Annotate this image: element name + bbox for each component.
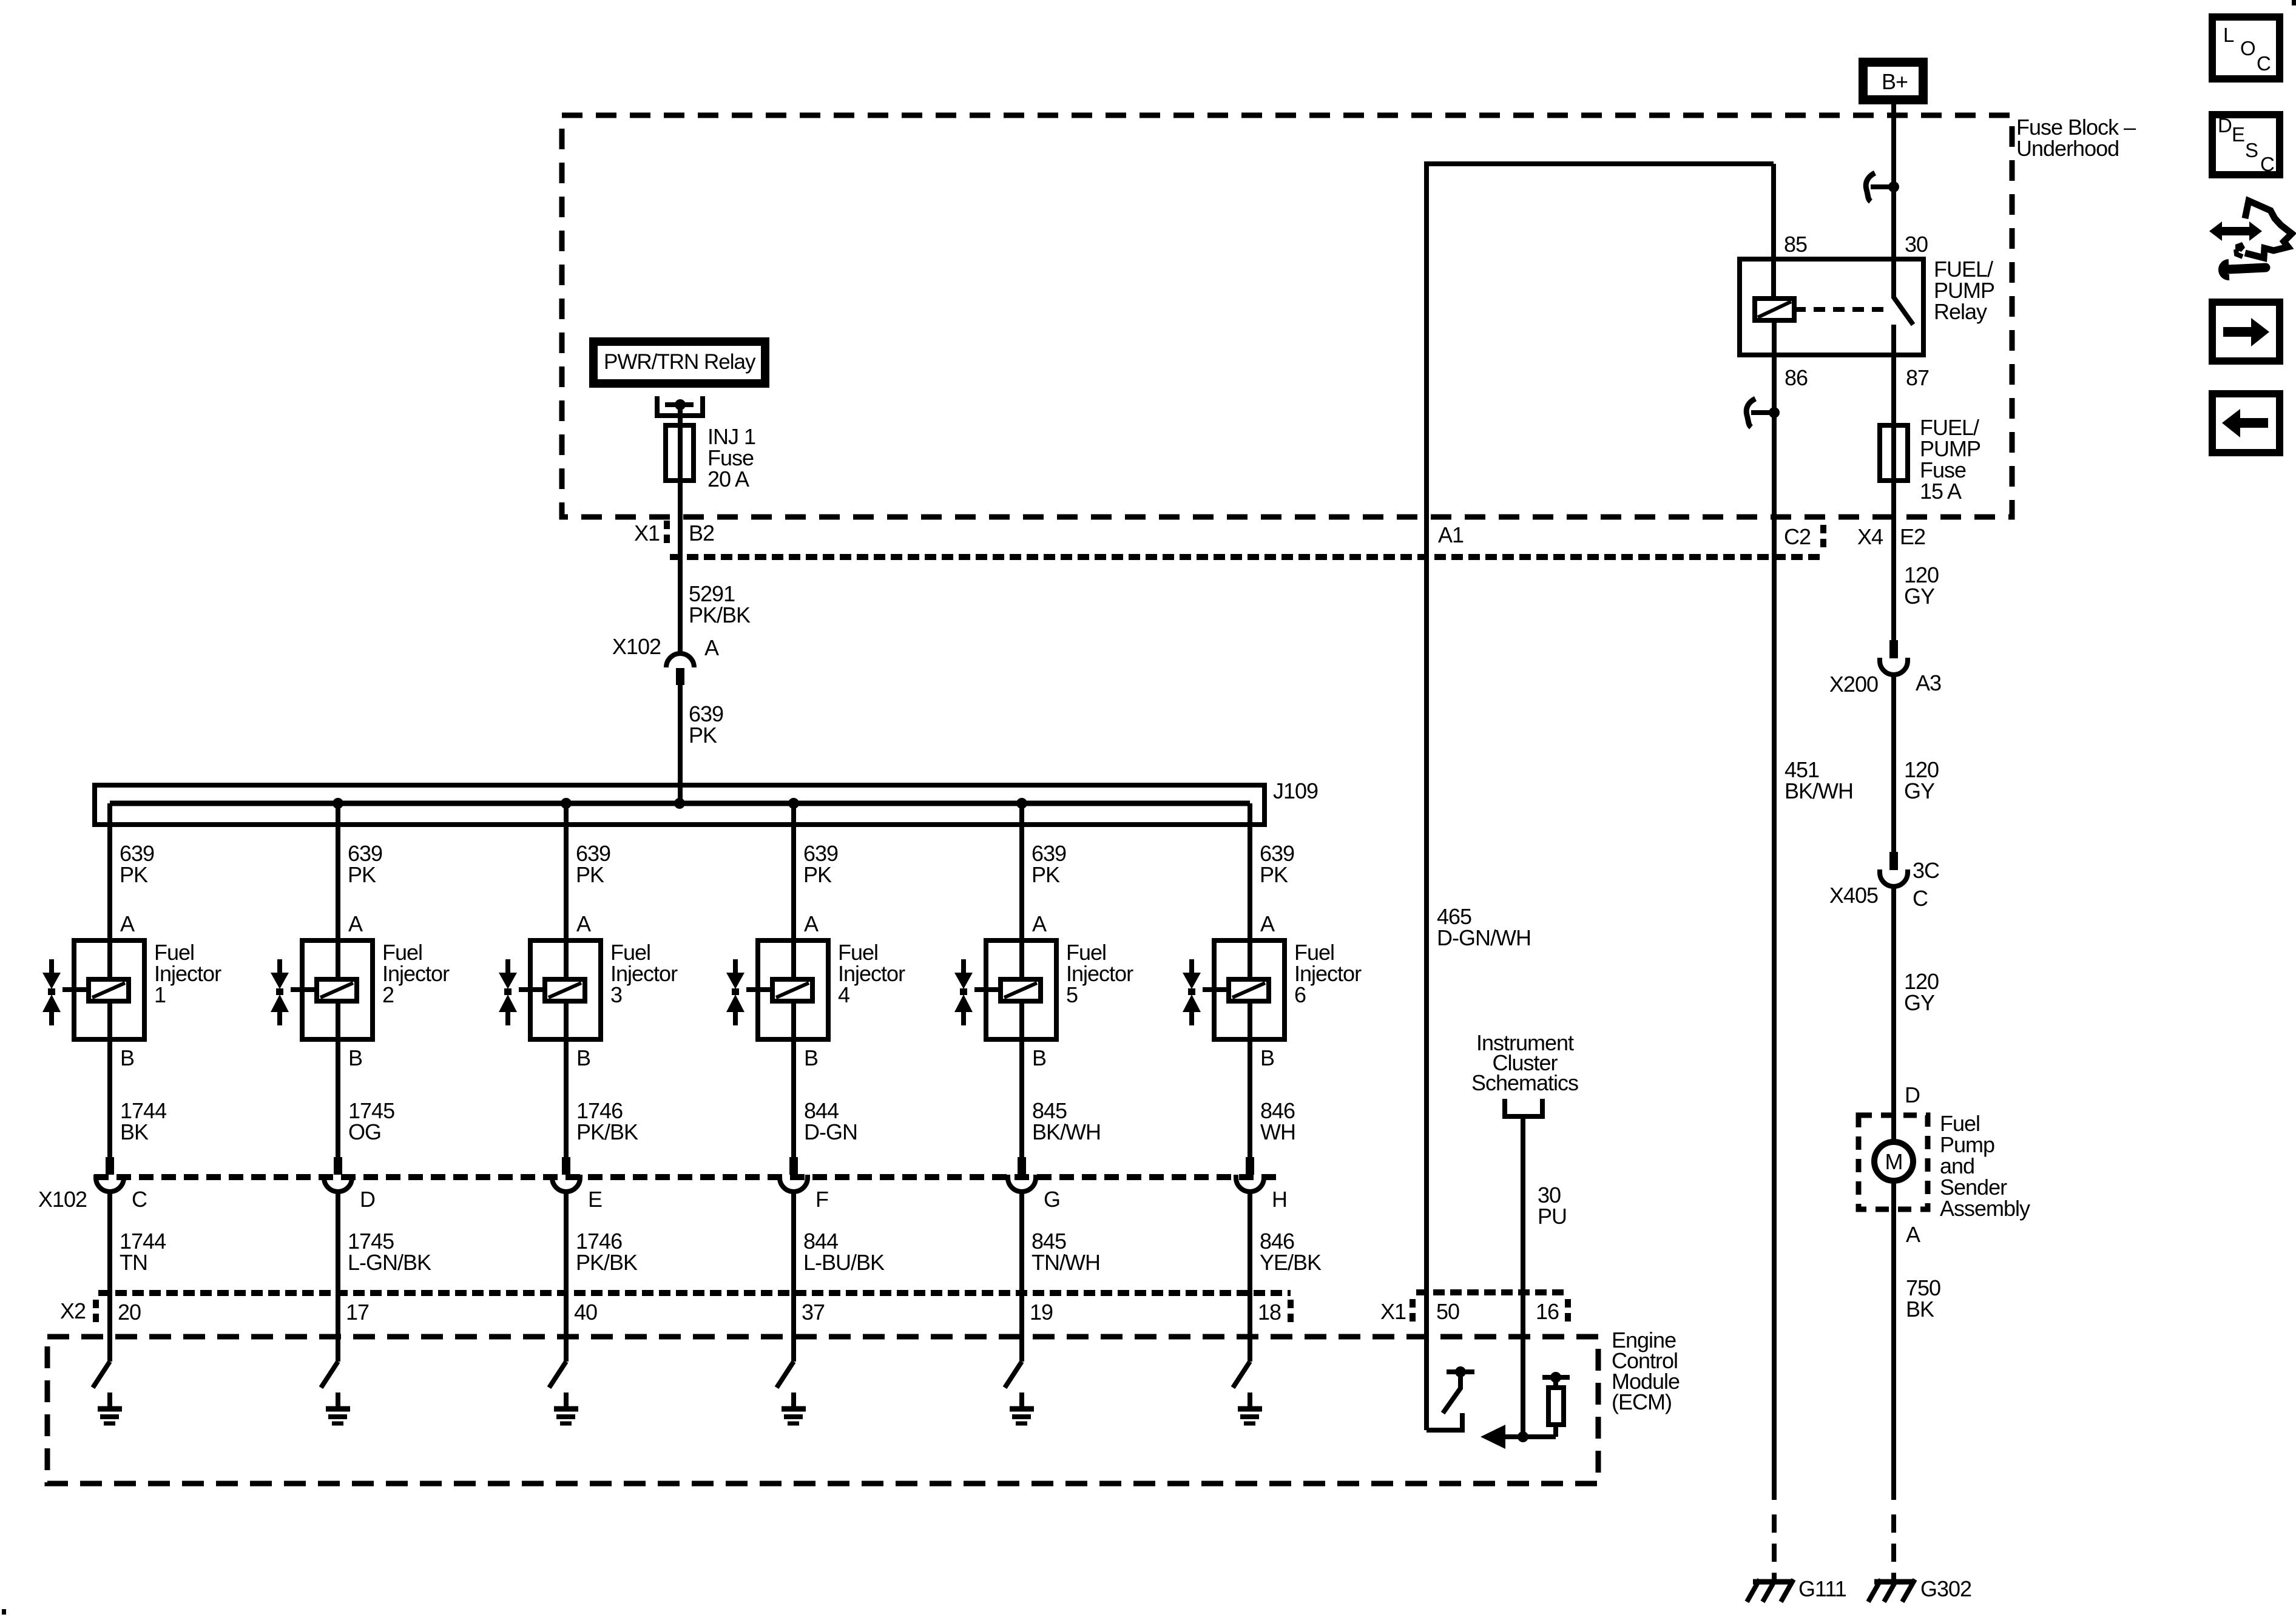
ECM internal pull-up resistor at pin 16 [1542, 1375, 1570, 1380]
ground symbol inside ECM [791, 1393, 796, 1408]
FUEL/PUMP fuse 15A [1880, 425, 1908, 481]
svg-text:A: A [576, 911, 591, 936]
wire 750 BK to G302 [1891, 1181, 1896, 1500]
wire 844 L-BU/BK to ECM [791, 1192, 796, 1296]
ECM connector X2 face dashed line [98, 1290, 1291, 1296]
wire 1746 PK/BK to ECM [564, 1192, 569, 1296]
page corner marks [2292, 0, 2296, 5]
ground symbol inside ECM [564, 1393, 569, 1408]
svg-text:E: E [2232, 123, 2244, 146]
svg-text:(ECM): (ECM) [1612, 1389, 1672, 1414]
svg-text:A: A [120, 911, 135, 936]
svg-text:X102: X102 [38, 1187, 87, 1212]
svg-text:G: G [1044, 1187, 1060, 1212]
relay coil [1755, 299, 1794, 320]
ground symbol inside ECM [107, 1393, 112, 1408]
svg-text:OG: OG [348, 1119, 381, 1144]
svg-text:A: A [1260, 911, 1275, 936]
svg-text:PK: PK [689, 723, 717, 748]
svg-text:J109: J109 [1273, 778, 1318, 803]
svg-text:85: 85 [1784, 232, 1807, 257]
svg-text:BK/WH: BK/WH [1032, 1119, 1101, 1144]
svg-text:15 A: 15 A [1920, 479, 1962, 504]
injector 5 solenoid stub [974, 987, 1001, 992]
svg-text:A: A [1906, 1222, 1920, 1247]
svg-text:B: B [348, 1045, 362, 1070]
connector X102 pin G [1018, 1157, 1026, 1175]
svg-text:PK: PK [1032, 862, 1060, 887]
svg-text:WH: WH [1260, 1119, 1295, 1144]
fuel injector 4 box [758, 940, 828, 1039]
svg-text:A3: A3 [1916, 670, 1941, 695]
svg-text:G111: G111 [1798, 1576, 1846, 1601]
svg-text:S: S [2245, 139, 2258, 161]
fuel injector 6 box [1214, 940, 1285, 1039]
injector 2 pintle valve symbol [277, 959, 282, 973]
wire 845 TN/WH to ECM [1019, 1192, 1024, 1296]
svg-text:1: 1 [154, 982, 166, 1007]
svg-text:TN/WH: TN/WH [1032, 1250, 1100, 1275]
relay switch blade [1894, 297, 1913, 325]
wire 846 YE/BK to ECM [1248, 1192, 1252, 1296]
wire from PWR/TRN relay through INJ1 fuse to X102 [678, 405, 683, 653]
ground lead from pin 86 wire [1772, 1514, 1777, 1582]
injector 4 pintle valve symbol [733, 959, 738, 973]
svg-text:PK: PK [576, 862, 604, 887]
ground symbol inside ECM [1248, 1393, 1252, 1408]
INJ 1 fuse 20A [666, 425, 694, 481]
injector 3 solenoid stub [519, 987, 545, 992]
svg-text:GY: GY [1904, 990, 1935, 1015]
fuel pump and sender assembly dashed box [1859, 1115, 1928, 1209]
connector X405 pin C [1889, 852, 1898, 870]
svg-text:B: B [120, 1045, 134, 1070]
wire 465 feed: ECM pin 50 up and over to relay pin 85 [1427, 164, 1774, 1430]
injector 1 solenoid coil [89, 979, 129, 1001]
PWR/TRN relay terminal bracket [657, 396, 703, 416]
injector 5 solenoid coil [1001, 979, 1041, 1001]
svg-text:BK: BK [1906, 1297, 1934, 1322]
svg-text:B: B [1260, 1045, 1274, 1070]
svg-text:X1: X1 [1380, 1299, 1406, 1324]
svg-text:L-GN/BK: L-GN/BK [348, 1250, 431, 1275]
relay pin 86 wire down to C2 and G111 [1772, 320, 1777, 1500]
svg-text:D: D [360, 1187, 375, 1212]
svg-text:PK: PK [120, 862, 148, 887]
fuel injector 5 box [986, 940, 1056, 1039]
svg-text:17: 17 [346, 1300, 369, 1325]
svg-text:E2: E2 [1900, 524, 1925, 549]
svg-text:86: 86 [1784, 365, 1808, 390]
svg-text:20 A: 20 A [707, 467, 749, 491]
svg-text:50: 50 [1436, 1299, 1459, 1324]
fuel injector 1 box [74, 940, 144, 1039]
svg-text:C: C [1913, 886, 1928, 911]
injector 4 solenoid coil [772, 979, 812, 1001]
svg-text:Relay: Relay [1934, 299, 1987, 324]
ECM driver switch for injector 6 [1248, 1296, 1252, 1362]
wire 639 PK feed injector 4 [791, 803, 796, 1175]
fuel injector 2 box [302, 940, 373, 1039]
injector 3 pintle valve symbol [505, 959, 510, 973]
injector 5 pintle valve symbol [961, 959, 966, 973]
svg-text:TN: TN [120, 1250, 147, 1275]
svg-text:L-BU/BK: L-BU/BK [803, 1250, 885, 1275]
fuel injector 3 box [530, 940, 601, 1039]
svg-text:X2: X2 [60, 1298, 86, 1323]
svg-text:G302: G302 [1920, 1576, 1971, 1601]
svg-text:A: A [804, 911, 819, 936]
wire 639 PK feed injector 5 [1019, 803, 1024, 1175]
svg-text:A: A [704, 635, 719, 660]
clip symbol on B+ wire [1866, 173, 1875, 201]
junction dot on J109 bus [333, 798, 343, 809]
svg-text:B: B [576, 1045, 590, 1070]
LOC navigation icon [2212, 17, 2280, 79]
splice pack J109 outer box [95, 785, 1264, 825]
svg-text:D-GN: D-GN [804, 1119, 857, 1144]
svg-text:F: F [815, 1187, 828, 1212]
X1 connector face dashed line [670, 554, 1823, 560]
fuse block underhood dashed box [562, 115, 2012, 517]
svg-text:X4: X4 [1857, 524, 1883, 549]
svg-text:18: 18 [1258, 1300, 1281, 1325]
injector 6 solenoid stub [1203, 987, 1229, 992]
svg-text:PWR/TRN Relay: PWR/TRN Relay [604, 350, 756, 374]
forward navigation arrow icon [2212, 302, 2280, 361]
svg-text:A: A [348, 911, 363, 936]
wire 120 GY to fuel pump [1891, 886, 1896, 1141]
PWR/TRN Relay label box [593, 342, 765, 383]
svg-text:D: D [1905, 1082, 1920, 1107]
junction dot on J109 bus [561, 798, 572, 809]
fuel pump motor M1 [1874, 1142, 1913, 1181]
wire 30 PU [1521, 1116, 1525, 1437]
svg-text:B2: B2 [689, 521, 714, 545]
svg-text:E: E [588, 1187, 602, 1212]
injector 1 solenoid stub [62, 987, 89, 992]
svg-text:X102: X102 [612, 634, 661, 659]
svg-text:B: B [1032, 1045, 1046, 1070]
connector X102 pin F [789, 1157, 798, 1175]
svg-text:GY: GY [1904, 778, 1935, 803]
ground G302 [1874, 1579, 1915, 1585]
clip symbol on pin 86 wire [1746, 399, 1755, 427]
ECM driver switch for injector 3 [564, 1296, 569, 1362]
svg-text:O: O [2240, 37, 2255, 59]
svg-text:X405: X405 [1829, 883, 1878, 908]
ground G111 [1753, 1579, 1794, 1585]
svg-text:Underhood: Underhood [2016, 136, 2119, 161]
ECM connector X1 face dashed line [1416, 1289, 1565, 1295]
ECM driver switch for injector 2 [336, 1296, 340, 1362]
svg-text:L: L [2223, 24, 2234, 46]
svg-text:PK/BK: PK/BK [689, 603, 751, 627]
connector X102 pin D [334, 1157, 342, 1175]
svg-text:B: B [804, 1045, 818, 1070]
injector 4 solenoid stub [746, 987, 772, 992]
junction dot on J109 bus [674, 798, 685, 809]
junction dot on J109 bus [788, 798, 799, 809]
ECM driver switch for injector 1 [107, 1296, 112, 1362]
svg-text:X1: X1 [634, 521, 660, 545]
svg-text:20: 20 [118, 1300, 141, 1325]
svg-text:C: C [2257, 52, 2271, 75]
wire B+ feed down to relay pin 30 [1891, 104, 1896, 299]
diagnostic hand-wrench icon [2209, 221, 2262, 241]
injector 6 pintle valve symbol [1189, 959, 1194, 973]
svg-text:A: A [1032, 911, 1047, 936]
svg-text:C2: C2 [1784, 524, 1811, 549]
wire 1744 TN to ECM [107, 1192, 112, 1296]
svg-text:C: C [2260, 153, 2274, 175]
injector 2 solenoid coil [317, 979, 357, 1001]
connector X102 face dashed line [94, 1174, 1280, 1180]
relay pin 85 wire [1771, 164, 1776, 299]
connector X102 pin E [562, 1157, 570, 1175]
ground symbol inside ECM [1019, 1393, 1024, 1408]
FUEL/PUMP relay box U1 [1740, 259, 1923, 355]
svg-text:PK: PK [803, 862, 832, 887]
battery B+ terminal [1863, 62, 1923, 100]
ground symbol inside ECM [336, 1393, 340, 1408]
svg-text:40: 40 [574, 1300, 597, 1325]
ECM driver switch for injector 5 [1019, 1296, 1024, 1362]
connector X102 pin H [1246, 1157, 1254, 1175]
DESC navigation icon [2212, 115, 2280, 175]
wire 639 PK feed injector 3 [564, 803, 569, 1175]
svg-text:PK: PK [348, 862, 376, 887]
svg-text:3: 3 [610, 982, 622, 1007]
svg-text:YE/BK: YE/BK [1260, 1250, 1322, 1275]
injector 6 solenoid coil [1229, 979, 1269, 1001]
ECM internal signal arrow at pin 16 [1485, 1434, 1556, 1439]
ECM internal driver for pin 50 [1427, 1413, 1462, 1430]
svg-text:Assembly: Assembly [1940, 1196, 2030, 1221]
wire 1745 L-GN/BK to ECM [336, 1192, 340, 1296]
wire 639 PK feed injector 6 [1248, 803, 1252, 1175]
svg-text:D-GN/WH: D-GN/WH [1437, 925, 1531, 950]
svg-text:BK: BK [120, 1119, 149, 1144]
wire 639 PK from X102 A to J109 [678, 685, 683, 803]
svg-text:PK/BK: PK/BK [576, 1119, 638, 1144]
relay coil-contact dashed link [1794, 307, 1884, 312]
injector 3 solenoid coil [545, 979, 585, 1001]
svg-text:BK/WH: BK/WH [1784, 778, 1853, 803]
svg-text:19: 19 [1030, 1300, 1053, 1325]
svg-text:4: 4 [838, 982, 849, 1007]
svg-text:PK: PK [1260, 862, 1288, 887]
connector X200 pin A3 [1889, 640, 1898, 658]
svg-text:B+: B+ [1882, 69, 1908, 94]
svg-text:37: 37 [802, 1300, 825, 1325]
connector X102 pin C [106, 1157, 114, 1175]
svg-text:5: 5 [1066, 982, 1078, 1007]
svg-text:H: H [1272, 1187, 1287, 1212]
injector 2 solenoid stub [291, 987, 317, 992]
wire 639 PK feed injector 1 [107, 803, 112, 1175]
svg-text:6: 6 [1294, 982, 1306, 1007]
svg-text:2: 2 [382, 982, 394, 1007]
wire 639 PK feed injector 2 [336, 803, 340, 1175]
svg-text:30: 30 [1905, 232, 1928, 257]
svg-text:GY: GY [1904, 584, 1935, 609]
junction dot on J109 bus [1016, 798, 1027, 809]
svg-text:PK/BK: PK/BK [576, 1250, 638, 1275]
svg-text:3C: 3C [1913, 858, 1939, 883]
ECM driver switch for injector 4 [791, 1296, 796, 1362]
injector 1 pintle valve symbol [49, 959, 54, 973]
svg-text:A1: A1 [1438, 522, 1464, 547]
svg-text:PU: PU [1538, 1204, 1567, 1229]
back navigation arrow icon [2212, 394, 2280, 453]
J109 inner bus bar [110, 801, 1250, 806]
svg-text:X200: X200 [1829, 672, 1878, 697]
wire 120 GY to X405 [1891, 675, 1896, 852]
svg-text:87: 87 [1906, 365, 1929, 390]
svg-text:Schematics: Schematics [1471, 1070, 1578, 1095]
svg-text:C: C [132, 1187, 147, 1212]
engine control module ECM dashed box [47, 1337, 1598, 1484]
svg-text:D: D [2218, 114, 2232, 137]
svg-text:16: 16 [1536, 1299, 1559, 1324]
svg-text:M: M [1885, 1149, 1903, 1174]
